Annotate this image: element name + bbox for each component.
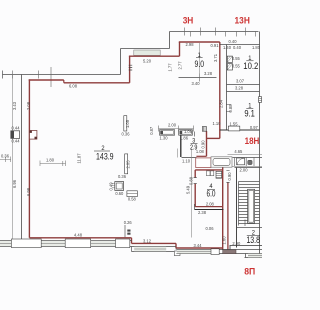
mini dimension left bottom bbox=[0, 157, 11, 163]
svg-text:0.87: 0.87 bbox=[149, 126, 154, 135]
red wall bottom step 3 bbox=[176, 247, 223, 249]
svg-text:3.07: 3.07 bbox=[236, 79, 245, 84]
cupboard A inner bbox=[161, 131, 174, 135]
stair treads bbox=[239, 182, 260, 224]
hall band dividers bbox=[235, 158, 255, 167]
cupboard B inner bbox=[180, 131, 192, 135]
svg-text:1.55: 1.55 bbox=[230, 122, 239, 127]
window b2 mid bbox=[41, 243, 65, 245]
svg-text:0.55: 0.55 bbox=[232, 64, 241, 69]
svg-text:2.08: 2.08 bbox=[26, 101, 31, 110]
svg-text:0.40: 0.40 bbox=[229, 39, 238, 44]
svg-text:1.06: 1.06 bbox=[184, 129, 193, 134]
red wall step x=130 bbox=[129, 56, 131, 83]
shaft near room 3 top bbox=[202, 127, 206, 132]
red wall top-left inner east part bbox=[64, 82, 130, 84]
red wall hall jog bbox=[207, 137, 220, 139]
red wall bottom step 1 bbox=[29, 237, 131, 239]
bathtub inner bbox=[213, 159, 230, 166]
svg-text:3.28: 3.28 bbox=[204, 71, 213, 76]
svg-text:0.49: 0.49 bbox=[109, 182, 114, 191]
svg-text:3.71: 3.71 bbox=[213, 53, 218, 62]
red wall room 9.0 left bbox=[179, 42, 181, 56]
radiator 9.1 right wall bbox=[259, 97, 262, 103]
svg-text:1.30: 1.30 bbox=[160, 136, 169, 141]
stair stringer bbox=[248, 189, 255, 223]
svg-text:5.49: 5.49 bbox=[186, 185, 191, 194]
shaft stack hatch upper bbox=[227, 56, 232, 62]
outer wall step up x=120 bbox=[120, 49, 122, 75]
niche marks on red step wall bbox=[129, 65, 133, 70]
shaft stack left of 10.2 upper bbox=[227, 56, 232, 62]
shaft stack hatch lower bbox=[227, 64, 232, 70]
svg-text:0.36: 0.36 bbox=[122, 132, 131, 137]
window top band fill bbox=[134, 50, 160, 55]
bath room red rect bbox=[196, 158, 211, 168]
band step connector x=131.5 bbox=[131, 247, 133, 252]
svg-text:0.06: 0.06 bbox=[206, 226, 215, 231]
stair stringer inner bbox=[249, 190, 254, 222]
bottom wall band part3 lines bbox=[177, 250, 263, 258]
red wall jog x=64 bbox=[63, 80, 65, 83]
red wall room 4 bottom bbox=[195, 206, 223, 208]
red wall room 4 left lower bbox=[194, 184, 196, 207]
svg-text:2.77: 2.77 bbox=[177, 61, 182, 70]
red wall left inner bbox=[28, 79, 30, 237]
outer wall top-left bbox=[3, 74, 121, 76]
svg-text:1.80: 1.80 bbox=[252, 45, 261, 50]
cupboard A dark block bbox=[160, 131, 163, 135]
svg-text:0.91: 0.91 bbox=[211, 43, 220, 48]
fixture square dark part bbox=[11, 131, 14, 139]
window b3 bbox=[91, 241, 116, 246]
pier 3 bbox=[116, 239, 130, 248]
hall band top line bbox=[233, 157, 263, 159]
window b5 bbox=[134, 247, 166, 251]
svg-text:6.0: 6.0 bbox=[207, 188, 216, 198]
wall 9.1 bottom bbox=[220, 129, 260, 131]
svg-text:3Н: 3Н bbox=[183, 15, 194, 25]
door marks 9.1 left wall bbox=[226, 104, 231, 111]
svg-text:5.20: 5.20 bbox=[143, 58, 152, 63]
svg-text:0.44: 0.44 bbox=[12, 138, 21, 143]
room 3 fraction line bbox=[191, 143, 198, 145]
red wall east of room 4 bbox=[222, 166, 224, 250]
big room fraction line bbox=[94, 150, 110, 152]
dim vertical 9.0 bbox=[199, 43, 201, 74]
radiator lines bbox=[259, 99, 262, 101]
cupboard A bbox=[160, 130, 175, 136]
svg-text:10.2: 10.2 bbox=[243, 61, 258, 72]
bottom wall band part1 top line bbox=[0, 240, 132, 242]
svg-text:3.28: 3.28 bbox=[235, 86, 244, 91]
wall 9.1 top bbox=[227, 91, 260, 93]
wall room 4 bottom black bbox=[195, 209, 224, 211]
stair tread left edge bbox=[238, 182, 240, 226]
svg-text:3.40: 3.40 bbox=[192, 81, 201, 86]
red wall corridor to stair bbox=[227, 183, 229, 250]
outer wall right side bbox=[259, 32, 261, 258]
svg-text:1.80: 1.80 bbox=[46, 158, 55, 163]
window b7 bbox=[248, 254, 262, 257]
svg-text:3.44: 3.44 bbox=[194, 243, 203, 248]
window b2 bbox=[41, 241, 65, 246]
svg-text:2.05: 2.05 bbox=[126, 160, 131, 169]
band step connector x=174.7 bbox=[175, 248, 177, 250]
flat element mid line bbox=[127, 193, 137, 195]
dim line cupboards bbox=[159, 126, 194, 132]
stair top line bbox=[235, 167, 263, 169]
room 4 duct lines bbox=[216, 174, 222, 178]
red wall room 3 right bbox=[206, 131, 208, 156]
red wall bottom step down b bbox=[175, 243, 177, 248]
tick 9.0 bottom bbox=[199, 74, 201, 82]
red wall bottom step 2 bbox=[132, 242, 177, 244]
room 4 fixture a bbox=[206, 171, 210, 176]
svg-text:2.00: 2.00 bbox=[168, 123, 177, 128]
mini dimension 1.80 bbox=[40, 161, 66, 167]
svg-text:4.48: 4.48 bbox=[74, 232, 83, 237]
svg-text:0.55: 0.55 bbox=[232, 56, 241, 61]
outer wall left side bbox=[21, 75, 23, 240]
flat element bbox=[127, 191, 137, 197]
stair west wall bbox=[236, 168, 238, 248]
door marks room 4 left wall bbox=[194, 178, 197, 184]
svg-text:13Н: 13Н bbox=[235, 15, 251, 25]
wall 10.2 9.1 left thin bbox=[226, 45, 228, 130]
stair landing line bbox=[237, 227, 263, 229]
dim vertical big room right bbox=[191, 149, 193, 238]
svg-text:0.90: 0.90 bbox=[227, 172, 232, 181]
room 9.1 fraction line bbox=[246, 107, 253, 109]
window b1 mid bbox=[0, 243, 11, 245]
hall band bottom line bbox=[196, 166, 263, 168]
outer wall left end tick bbox=[2, 71, 4, 79]
svg-text:2.38: 2.38 bbox=[198, 210, 207, 215]
cupboard B bbox=[179, 130, 193, 136]
svg-text:13.8: 13.8 bbox=[246, 235, 260, 245]
svg-text:1.60: 1.60 bbox=[221, 236, 226, 245]
svg-text:6.96: 6.96 bbox=[12, 179, 17, 188]
stair arrow stub bbox=[244, 220, 246, 227]
wall stub nubs bbox=[127, 230, 130, 232]
svg-text:0.60: 0.60 bbox=[115, 191, 124, 196]
window b5 mid bbox=[134, 248, 166, 250]
hatched wall block bottom bbox=[223, 250, 236, 254]
red wall room 3 bottom bbox=[196, 155, 206, 157]
ticks on top-left outer wall bbox=[13, 67, 52, 87]
svg-text:6.98: 6.98 bbox=[26, 187, 31, 196]
shaft stack left of 10.2 lower bbox=[227, 64, 232, 70]
cupboard B dark block bbox=[180, 131, 183, 135]
svg-text:0.44: 0.44 bbox=[12, 125, 21, 130]
window b7 mid bbox=[248, 255, 262, 257]
stair bottom wall bbox=[230, 246, 263, 251]
svg-text:1.05: 1.05 bbox=[125, 119, 130, 128]
svg-text:1.86: 1.86 bbox=[180, 136, 189, 141]
wall 9.0 bottom line bbox=[179, 77, 217, 79]
door leaf 9.1 bbox=[228, 126, 240, 131]
svg-text:3.12: 3.12 bbox=[143, 238, 152, 243]
svg-text:0.36: 0.36 bbox=[118, 174, 127, 179]
room 10.2 fraction line bbox=[246, 60, 253, 62]
facade stubs bbox=[191, 32, 256, 37]
tick right of room 3 top bbox=[194, 132, 196, 137]
svg-text:8П: 8П bbox=[244, 267, 255, 277]
pilaster 2 bbox=[125, 154, 128, 174]
column square inner bbox=[116, 183, 122, 189]
fixture square on left outer wall bbox=[11, 131, 20, 139]
bottom wall band part1 bottom line bbox=[0, 246, 132, 248]
svg-text:1.77: 1.77 bbox=[167, 63, 172, 72]
svg-text:0.97: 0.97 bbox=[250, 125, 259, 130]
svg-text:0.88: 0.88 bbox=[188, 176, 193, 185]
wall 10.2 top inner bbox=[220, 44, 260, 46]
svg-text:0.26: 0.26 bbox=[124, 220, 133, 225]
svg-text:11.87: 11.87 bbox=[77, 153, 82, 164]
svg-text:1.10: 1.10 bbox=[182, 158, 191, 163]
room 4 fraction line bbox=[207, 188, 215, 190]
window b1 bbox=[0, 241, 11, 246]
red wall room 9.0 top bbox=[179, 41, 220, 43]
window b6 mid bbox=[177, 251, 211, 253]
column square bbox=[115, 182, 124, 191]
bottom wall band part2 lines bbox=[132, 247, 177, 252]
svg-text:0.58: 0.58 bbox=[128, 196, 137, 201]
red wall room 4 top bbox=[195, 169, 223, 171]
svg-text:2.08: 2.08 bbox=[206, 201, 215, 206]
wall room 4 bottom left end tick bbox=[194, 204, 196, 210]
svg-text:2.98: 2.98 bbox=[186, 42, 195, 47]
svg-text:143.9: 143.9 bbox=[96, 151, 114, 162]
window b3 mid bbox=[91, 243, 116, 245]
svg-text:9.0: 9.0 bbox=[195, 59, 205, 70]
svg-text:18Н: 18Н bbox=[245, 136, 260, 146]
column side ticks bbox=[112, 183, 115, 187]
svg-text:0.36: 0.36 bbox=[1, 154, 10, 159]
svg-text:3.43: 3.43 bbox=[12, 101, 17, 110]
hall door leaf bbox=[237, 158, 245, 165]
room 9.0 fraction line bbox=[196, 57, 203, 59]
red wall right of 9.0 and corridor bbox=[219, 42, 221, 138]
window b6 bbox=[177, 250, 211, 253]
svg-text:0.90: 0.90 bbox=[201, 140, 206, 149]
red wall under top window bbox=[129, 55, 180, 57]
outer facade top line bbox=[170, 31, 259, 33]
room 4 duct bbox=[216, 171, 222, 178]
svg-text:2.90: 2.90 bbox=[232, 241, 241, 246]
svg-text:1.08: 1.08 bbox=[196, 149, 205, 154]
niche square on left red wall bbox=[30, 131, 37, 140]
stair room fraction line bbox=[247, 235, 260, 237]
hall dim line 4.65 bbox=[228, 154, 263, 156]
svg-text:4.65: 4.65 bbox=[234, 149, 243, 154]
door marks corridor wall bbox=[226, 171, 229, 183]
svg-text:1.40: 1.40 bbox=[223, 45, 232, 50]
pier 4 bbox=[211, 249, 219, 255]
svg-text:0.88: 0.88 bbox=[228, 104, 233, 113]
outer wall window band top bbox=[121, 48, 170, 50]
pilaster 1 bbox=[124, 116, 127, 131]
hall door swing bbox=[237, 158, 244, 164]
wall room 3 left thick bbox=[180, 133, 182, 157]
wall stub mid bottom bbox=[124, 225, 126, 237]
svg-text:0.40: 0.40 bbox=[233, 45, 242, 50]
niche square marks bbox=[30, 131, 32, 133]
svg-text:1.10: 1.10 bbox=[213, 121, 222, 126]
step porch rect bbox=[174, 251, 180, 256]
wall 10.2 bottom bbox=[227, 84, 260, 86]
wall room 3 bottom thin bbox=[182, 157, 197, 159]
red wall bottom step down a bbox=[131, 238, 133, 244]
wall room 3 top bbox=[182, 134, 192, 136]
facade ticks bbox=[185, 28, 246, 36]
red wall room 4 left upper bbox=[194, 170, 196, 178]
room 4 fixture b bbox=[210, 171, 213, 176]
outer wall step up to facade bbox=[169, 32, 171, 49]
red wall top-left inner west part bbox=[29, 79, 64, 81]
svg-text:9.1: 9.1 bbox=[244, 108, 255, 119]
svg-text:6.08: 6.08 bbox=[69, 84, 78, 89]
pier 1 bbox=[11, 239, 41, 248]
shaft hatch bbox=[204, 127, 205, 132]
dim short left of room 3 bbox=[177, 149, 179, 158]
door gap 9.1 bottom bbox=[228, 127, 240, 132]
pier 2 bbox=[65, 239, 91, 248]
left dimension line bbox=[12, 75, 14, 240]
bathtub outer bbox=[211, 157, 232, 167]
hall wc fixture bbox=[248, 160, 252, 164]
svg-text:2.84: 2.84 bbox=[219, 99, 224, 108]
svg-text:2.00: 2.00 bbox=[240, 168, 249, 173]
